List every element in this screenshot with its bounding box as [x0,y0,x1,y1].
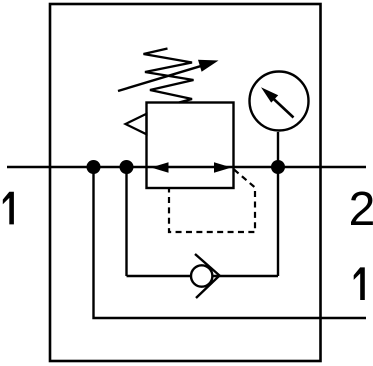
check valve seat [195,254,220,298]
port label 1 (bottom right) [354,267,365,300]
port label 1 (left) [3,192,14,225]
relief triangle [126,114,147,135]
gauge needle shaft [271,97,294,118]
check valve poppet circle [191,265,212,286]
flow path arrow right head [214,162,232,172]
wire: branch down from node A to port 1 output [94,167,367,318]
pilot line (dashed) [169,170,255,233]
port label 2 (right) [351,192,373,226]
wire: check valve horizontal line [127,275,279,277]
gauge G1 body [250,72,309,131]
adjustment arrow head [198,60,219,72]
node A junction dot [87,160,101,174]
node C junction dot [271,160,285,174]
regulator body U1 [147,103,234,189]
wire: branch up/down at node C (gauge stem and check valve riser) [277,132,279,276]
gauge needle head [261,87,278,102]
spring [144,49,194,103]
wire: main flow line port 1 to port 2 [7,166,366,168]
flow path arrow left head [151,162,169,172]
wire: branch down from node B to check valve line [125,167,127,276]
node B junction dot [120,160,134,174]
enclosure box [50,4,321,361]
adjustment arrow shaft [118,64,207,91]
